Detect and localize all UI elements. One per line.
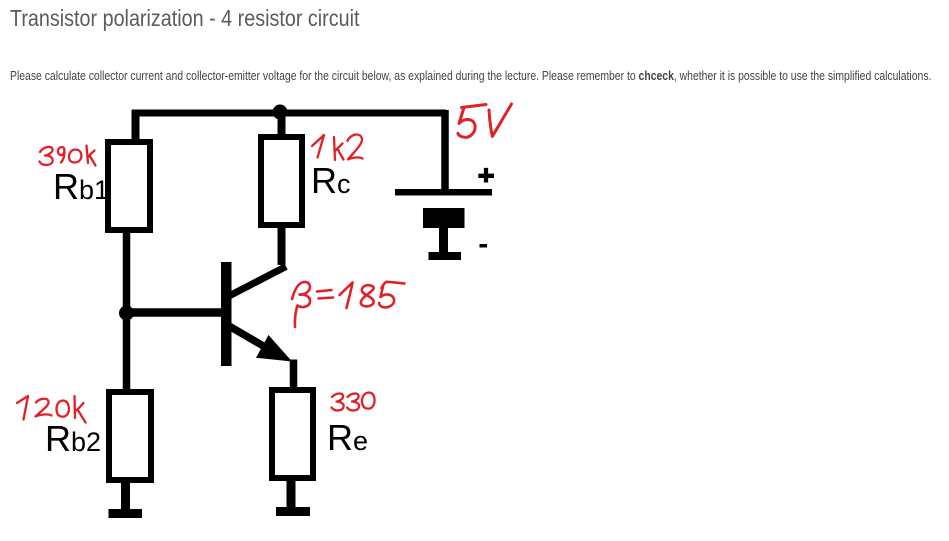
wire stub from rail down to Rb1 bbox=[132, 110, 140, 140]
transistor Q1 emitter arrowhead bbox=[256, 335, 292, 362]
resistor Rb1 bbox=[108, 142, 150, 230]
svg-text:Re: Re bbox=[327, 417, 368, 458]
resistor Rc bbox=[261, 137, 302, 225]
wire Rb2 bottom to ground bbox=[121, 478, 130, 511]
battery plus sign bbox=[478, 168, 494, 183]
wire stub from rail down to Rc bbox=[278, 113, 286, 136]
transistor Q1 base bar bbox=[221, 262, 232, 366]
svg-text:Rb2: Rb2 bbox=[45, 418, 101, 459]
value 390k (red handwritten) bbox=[40, 146, 96, 166]
wire emitter vertical down to Re bbox=[290, 360, 298, 391]
resistor Rb2 bbox=[109, 392, 151, 480]
ground bar below Rb2 bbox=[109, 509, 143, 518]
resistor Re bbox=[272, 390, 313, 478]
value 330 (red handwritten) bbox=[332, 393, 375, 411]
wire Re bottom to ground bbox=[287, 476, 296, 509]
wire base from node B to transistor bbox=[126, 308, 222, 317]
node junction at top rail bbox=[273, 105, 288, 120]
wire top rail bbox=[132, 110, 446, 117]
value beta=185 (red handwritten) bbox=[292, 282, 405, 327]
battery B1 positive plate bbox=[395, 189, 492, 196]
battery B1 negative plate (thick) bbox=[423, 208, 465, 228]
value 5V (red handwritten) bbox=[458, 104, 512, 137]
value 120k (red handwritten) bbox=[17, 396, 86, 423]
transistor Q1 emitter diagonal bbox=[229, 326, 272, 351]
battery minus sign bbox=[480, 244, 488, 248]
battery stub below negative plate bbox=[439, 228, 448, 253]
wire Rb1 bottom through node B down to Rb2 bbox=[123, 230, 131, 392]
value 1k2 (red handwritten) bbox=[312, 134, 363, 160]
ground bar below Re bbox=[276, 507, 310, 516]
wire from rail down to battery + plate bbox=[441, 110, 449, 190]
transistor Q1 collector diagonal bbox=[229, 267, 286, 297]
node B junction dot bbox=[119, 306, 134, 321]
battery bottom bar bbox=[429, 252, 462, 260]
svg-text:Rb1: Rb1 bbox=[53, 166, 109, 207]
wire collector vertical to Rc bbox=[278, 226, 286, 265]
svg-text:Rc: Rc bbox=[311, 160, 351, 201]
